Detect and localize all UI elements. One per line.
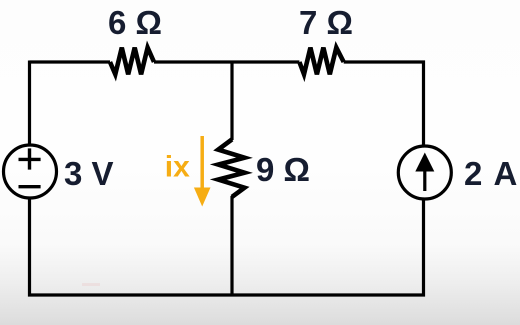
voltage source plus sign [19,148,41,169]
faint annotation smudge [82,283,100,286]
resistor R2 7-ohm zigzag [299,48,343,75]
current source arrow (upward) [423,168,426,191]
svg-text:7 Ω: 7 Ω [299,4,353,41]
svg-text:ix: ix [165,151,190,184]
current direction arrow ix (orange, downward) [200,136,204,189]
wire top-left segment [30,60,111,63]
wire top-middle segment [154,60,299,63]
voltage source V1 circle [4,145,57,198]
current source I1 circle [398,146,451,199]
wire right vertical bottom [232,199,424,295]
svg-text:6 Ω: 6 Ω [108,4,162,41]
wire top-right segment [344,62,424,146]
svg-text:2 A: 2 A [464,155,519,192]
svg-text:3 V: 3 V [64,155,114,192]
resistor R1 6-ohm zigzag [110,48,154,75]
wire middle vertical top [230,61,233,141]
voltage source minus sign [19,185,41,188]
resistor R3 9-ohm vertical zigzag [218,139,244,197]
svg-text:9 Ω: 9 Ω [256,151,310,188]
wire left vertical bottom [30,198,233,295]
wire middle vertical bottom [230,196,233,295]
wire left vertical top [28,61,31,146]
